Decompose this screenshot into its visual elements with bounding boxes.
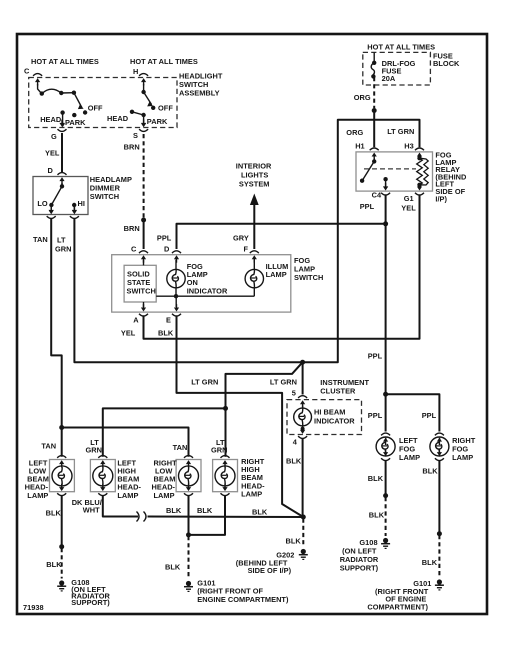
left high beam headlamp [98,456,107,468]
wire BLK left fog dashed to ground [385,497,387,536]
svg-text:LO: LO [37,199,48,208]
svg-text:YEL: YEL [401,204,416,213]
relay linkage (dashed) [364,168,416,170]
svg-text:71938: 71938 [23,603,44,612]
svg-text:LT GRN: LT GRN [191,378,218,387]
svg-text:BLK: BLK [165,563,181,572]
svg-text:BLK: BLK [368,474,384,483]
wire LT GRN to cluster 5 [302,362,304,393]
wire YEL relay G1 to fog switch A [144,197,420,339]
node BLK G202 junction [301,515,306,520]
svg-text:BLK: BLK [369,511,385,520]
wire LT GRN: HI down to main run [74,220,302,362]
wire LT GRN to left high beam [103,408,226,455]
svg-text:HI: HI [78,199,85,208]
svg-text:TAN: TAN [173,443,188,452]
left fog lamp [381,433,390,445]
wire TAN: LO down with jog [51,220,62,456]
svg-text:BLK: BLK [422,467,438,476]
svg-text:SWITCH: SWITCH [127,287,156,296]
svg-text:LAMP: LAMP [241,489,262,498]
headlamp dimmer switch box [33,177,88,215]
svg-text:LIGHTS: LIGHTS [241,171,268,180]
svg-text:ASSEMBLY: ASSEMBLY [179,89,220,98]
node TAN branch [59,425,64,430]
ground G108 (fog) [381,538,390,549]
svg-text:HI BEAM: HI BEAM [314,408,345,417]
svg-text:5: 5 [292,389,296,398]
headlight switch S2 (park/head) [130,84,156,127]
svg-text:I/P): I/P) [435,194,447,203]
svg-text:PARK: PARK [147,117,168,126]
terminal 4 [298,427,307,439]
svg-text:D: D [48,166,54,175]
fuse DRL-FOG 20A [371,52,376,78]
svg-text:BLK: BLK [46,560,62,569]
svg-text:YEL: YEL [121,328,136,337]
svg-text:G: G [51,132,57,141]
svg-text:TAN: TAN [33,235,48,244]
svg-text:C: C [131,245,137,254]
wire ORG from fuse (dashed) [373,77,375,108]
hi beam indicator lamp [294,408,312,426]
svg-text:INDICATOR: INDICATOR [187,286,228,295]
wire GRY F up arrow to interior lights [253,203,255,248]
svg-text:SUPPORT): SUPPORT) [340,564,379,573]
svg-text:BRN: BRN [124,224,140,233]
svg-text:BLK: BLK [197,506,213,515]
svg-text:SIDE OF I/P): SIDE OF I/P) [248,566,292,575]
svg-text:F: F [244,245,249,254]
node left low BLK [59,544,64,549]
wire BLK right low down [188,497,190,535]
svg-text:PPL: PPL [360,202,375,211]
svg-text:PPL: PPL [368,352,383,361]
wire PPL to left fog lamp [385,394,387,430]
svg-text:H1: H1 [355,142,365,151]
svg-text:LT GRN: LT GRN [387,127,414,136]
svg-text:GRN: GRN [55,245,72,254]
node BRN junction [141,218,146,223]
ground G202 [299,549,308,560]
wire BLK left low dashed to ground [61,548,63,579]
svg-text:HEAD: HEAD [107,114,129,123]
node right beams BLK [186,532,191,537]
svg-text:LT: LT [57,236,66,245]
svg-text:BLOCK: BLOCK [433,59,460,68]
svg-text:INDICATOR: INDICATOR [314,417,355,426]
node PPL junction [383,221,388,226]
svg-text:GRN: GRN [211,446,228,455]
svg-text:BLK: BLK [286,457,302,466]
node ORG [372,108,377,113]
wire PPL C4 down [385,197,387,224]
svg-text:YEL: YEL [45,149,60,158]
svg-text:LAMP: LAMP [266,270,287,279]
svg-text:S: S [133,131,138,140]
svg-text:BLK: BLK [286,537,302,546]
inline connector [137,512,140,522]
svg-text:COMPARTMENT): COMPARTMENT) [367,603,428,612]
fog lamp relay box [356,152,433,191]
terminal HI out [70,207,79,219]
relay coil [417,156,429,187]
svg-text:PARK: PARK [65,118,86,127]
svg-text:H3: H3 [404,142,414,151]
left low beam headlamp [57,456,66,468]
headlight switch assembly box [29,78,177,128]
svg-text:BLK: BLK [422,558,438,567]
svg-text:20A: 20A [382,74,396,83]
right fog lamp [435,433,444,445]
wire BLK right high down [189,497,226,535]
svg-text:BRN: BRN [124,143,140,152]
solid state switch box [124,265,156,302]
headlight switch S1 (park/head) [38,84,88,127]
wire BLK dashed to G101 [188,536,190,579]
instrument cluster box [287,400,362,435]
svg-text:BLK: BLK [252,508,268,517]
wire DK BLU/WHT + BLK main ground line [103,497,137,517]
illum lamp [245,269,263,287]
wire BRN to fog switch C [143,220,145,248]
wire PPL down to fog lamps [385,224,387,394]
svg-text:BLK: BLK [46,509,62,518]
svg-text:C4: C4 [372,191,382,200]
node right fog BLK [437,531,442,536]
node PPL fog split [383,392,388,397]
svg-text:D: D [164,245,170,254]
svg-text:ORG: ORG [346,128,363,137]
wire BLK left low down [61,497,63,547]
svg-text:ENGINE COMPARTMENT): ENGINE COMPARTMENT) [197,595,289,604]
wire BLK dashed to G202 [302,519,304,548]
svg-text:HOT AT ALL TIMES: HOT AT ALL TIMES [367,43,435,52]
terminal A [139,304,148,316]
wire TAN branch to right low beam [62,428,189,456]
svg-text:LAMP: LAMP [154,491,175,500]
fog switch internal wires [144,260,255,307]
node LT GRN high beam split [223,406,228,411]
fog lamp switch box [112,255,291,312]
svg-text:INTERIOR: INTERIOR [236,162,272,171]
svg-text:HOT AT ALL TIMES: HOT AT ALL TIMES [130,57,198,66]
wire LT GRN to high beams [226,362,303,408]
terminal C4 [381,183,390,195]
svg-text:LAMP: LAMP [452,453,473,462]
wire ORG to relay H1 [373,111,375,147]
svg-text:C: C [24,67,30,76]
fuse block box [363,52,431,85]
svg-text:SUPPORT): SUPPORT) [71,598,110,607]
wire BLK right fog down [438,462,440,534]
terminal E [172,304,181,316]
wire LT GRN main to relay branch [303,120,420,363]
svg-text:SWITCH: SWITCH [90,192,119,201]
wire BLK from E to G202 path [177,318,304,518]
svg-text:TAN: TAN [41,442,56,451]
wire LT GRN to right high beam [225,408,227,455]
svg-text:LAMP: LAMP [399,453,420,462]
right high beam headlamp [221,456,230,468]
node left fog BLK [383,493,388,498]
svg-text:H: H [133,67,138,76]
svg-text:LAMP: LAMP [27,491,48,500]
wire BRN S down (dashed) [143,134,145,218]
wire BLK right fog dashed to ground [438,535,440,578]
ground G108 [57,580,66,591]
right low beam headlamp [184,456,193,468]
wire YEL G to D [61,134,63,172]
svg-text:PPL: PPL [157,234,172,243]
node LT GRN main junction [300,360,305,365]
wire PPL to fog switch D [177,224,386,248]
relay switch contacts [360,158,388,190]
svg-text:SWITCH: SWITCH [294,273,323,282]
terminal G1 [415,183,424,195]
svg-text:SYSTEM: SYSTEM [239,180,270,189]
svg-text:OFF: OFF [158,104,173,113]
svg-text:ORG: ORG [354,93,371,102]
svg-text:WHT: WHT [83,506,100,515]
svg-text:LT GRN: LT GRN [270,378,297,387]
svg-text:CLUSTER: CLUSTER [320,387,356,396]
ground G101 (fog) [435,579,444,590]
svg-text:A: A [133,316,139,325]
wire BLK cluster down [302,440,304,517]
wire BLK main to G202 node [149,516,304,519]
svg-text:HEAD: HEAD [40,115,62,124]
svg-text:PPL: PPL [422,411,437,420]
svg-text:HOT AT ALL TIMES: HOT AT ALL TIMES [31,57,99,66]
dimmer switch internals [49,183,77,214]
svg-text:OFF: OFF [88,104,103,113]
svg-text:BLK: BLK [166,506,182,515]
fog lamp on indicator lamp [167,269,185,287]
svg-text:E: E [166,316,171,325]
wire BLK left fog down [385,462,387,496]
ground G101 [184,581,193,592]
terminal LO out [47,207,56,219]
svg-text:PPL: PPL [368,411,383,420]
svg-text:GRN: GRN [86,446,103,455]
svg-text:GRY: GRY [233,234,249,243]
svg-text:LAMP: LAMP [117,491,138,500]
svg-text:BLK: BLK [158,328,174,337]
wire PPL to right fog lamp [386,394,440,430]
svg-text:G1: G1 [404,194,414,203]
